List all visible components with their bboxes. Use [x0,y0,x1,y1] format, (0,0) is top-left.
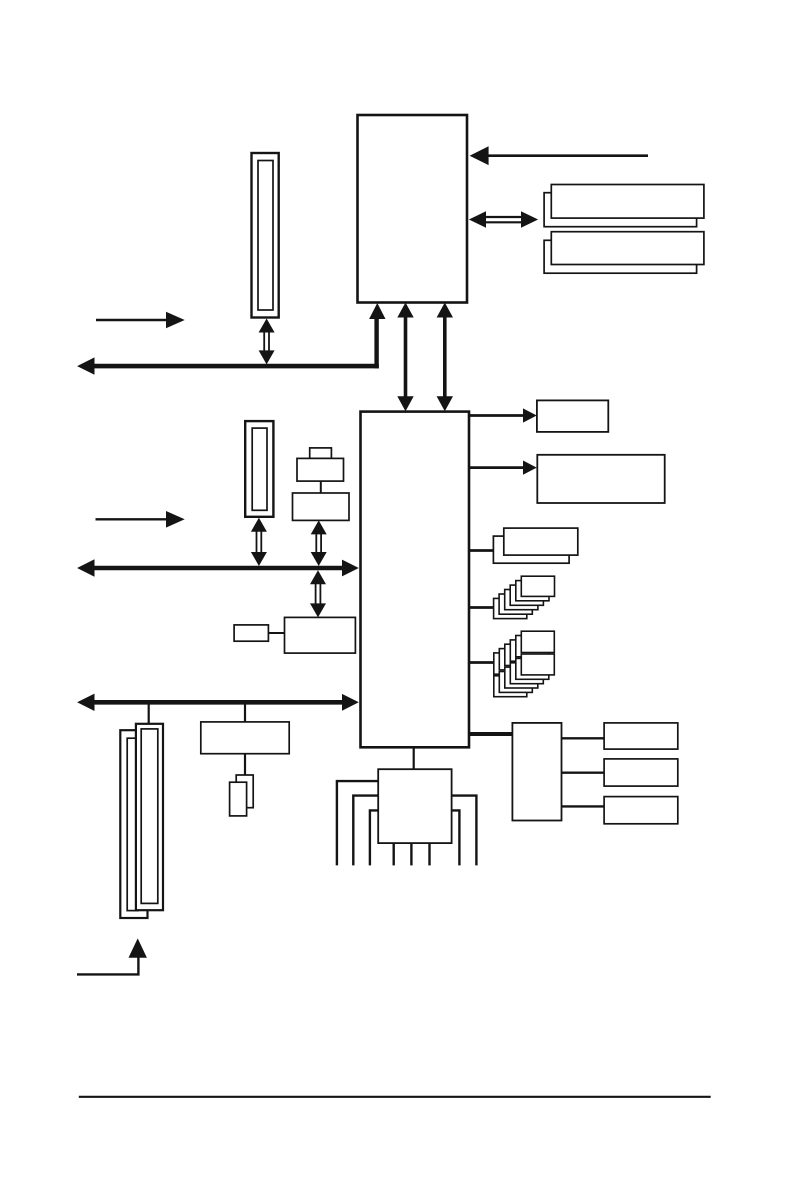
Super I/O bottom pin 1 [393,843,395,865]
box A [537,400,608,432]
double arrow component to PCI bus: shafts [315,531,317,556]
memory module M1 front rect [551,185,704,219]
right box 3 [604,797,678,824]
double arrow slot J1 to AGP bus: top head [259,319,275,333]
component tab rect [310,448,332,459]
double arrow CPU to memory: shaft bottom line [482,221,525,223]
Super I/O left pin 1 [337,781,378,865]
jack back rect [236,775,253,808]
component upper box [297,458,344,481]
Super I/O right pin 2 [452,796,477,866]
wire chipset to Super I/O [413,747,415,769]
second USB group stacked rect pairs [494,631,555,697]
SATA group back rect [493,536,569,563]
small arrow mid-left pointing right [96,518,169,520]
double arrow bus-box top head [310,570,326,584]
PCI bus right arrowhead [342,560,359,577]
component lower box [293,493,350,520]
thick PCI bus line (y568) [92,566,344,571]
wire bus to slot pair [148,705,150,725]
double arrow CPU to memory: right head [521,211,538,228]
AGP bus elbow up segment [374,318,378,368]
SATA group front rect [504,528,578,555]
back slot connector J4 inner [127,738,138,910]
chipset box U2 [361,412,470,748]
LAN box [201,722,289,754]
slot connector J2 inner [252,428,267,510]
double arrow slot J1 to AGP bus: shaft lines [263,329,265,353]
memory module M2 back rect [544,240,697,273]
wire LAN box to jack [244,754,246,776]
USB group stacked rects [494,576,555,618]
AGP bus left arrowhead [77,357,94,374]
CPU box U1 [358,115,468,303]
AGP bus elbow arrowhead into CPU [369,303,385,319]
front slot connector J3 outer [136,724,163,910]
double arrow slot J2 to PCI bus: shafts [256,528,258,556]
double arrow PCI bus to comm box: shafts [315,580,317,607]
memory module M2 front rect [551,232,704,265]
wire chipset to box B with arrowhead [469,466,526,469]
back slot connector J4 outer [120,730,147,918]
CPU-chipset double arrow 3: shaft [443,315,447,399]
Super I/O left pin 3 [370,810,378,865]
L-shaped arrow head [129,938,147,957]
wire chipset to SATA group [469,549,500,552]
wire chipset to USB group [469,606,500,609]
thick wire chipset to audio hub [469,732,512,736]
jack front rect [230,782,247,816]
right box 1 [604,723,678,749]
thick LPC bus line (y702) [92,700,344,705]
CPU-chipset double arrow 3: top head [437,303,453,318]
wire crystal to comm box [268,632,284,634]
front slot connector J3 inner [141,729,158,904]
CPU-chipset double arrow 2: shaft [404,315,408,399]
double arrow slot J1 to AGP bus: bottom head [259,350,275,364]
LPC bus left arrowhead [77,694,94,711]
right box 2 [604,759,678,786]
double arrow CPU to memory: left head [469,211,486,228]
double arrow component bottom head [311,552,327,566]
double arrow CPU to memory: shaft top line [482,216,525,218]
wire hub to right box 1 [562,737,605,739]
slot connector J1 outer [252,153,279,318]
wire between component boxes [320,481,322,493]
CPU-chipset double arrow 2: bottom head [397,396,413,411]
box B [537,455,664,503]
CPU-chipset double arrow 2: top head [397,303,413,318]
arrowhead into CPU right top [470,146,489,165]
double arrow slot J2 bottom head [251,552,267,566]
wire hub to right box 2 [562,772,605,774]
PCI bus left arrowhead [77,559,94,576]
double arrow component top head [311,520,327,534]
slot connector J1 inner [258,161,273,311]
bottom separator line [79,1096,711,1098]
wire bus to LAN box [244,705,246,724]
thick AGP bus line (y365.6) [92,364,379,369]
Super I/O bottom pin 2 [410,843,412,865]
Super I/O left pin 2 [353,796,378,866]
slot connector J2 outer [245,421,273,517]
crystal small box [234,625,268,641]
wire chipset to second USB group [469,661,500,664]
wire chipset to box A with arrowhead [469,414,526,417]
comm box [285,617,356,653]
CPU-chipset double arrow 3: bottom head [437,396,453,411]
LPC bus right arrowhead [342,694,359,711]
Super I/O chip box [378,769,451,843]
L-shaped arrow bottom left [77,956,138,974]
wire: clock line into CPU right top [487,154,648,157]
double arrow slot J2 top head [251,518,267,532]
wire hub to right box 3 [562,805,605,807]
Super I/O bottom pin 3 [428,843,430,865]
small arrow top-left pointing right [96,319,168,321]
audio hub box [512,723,561,821]
double arrow bus-box bottom head [310,603,326,617]
memory module M1 back rect [544,193,697,227]
Super I/O right pin 1 [452,810,460,865]
